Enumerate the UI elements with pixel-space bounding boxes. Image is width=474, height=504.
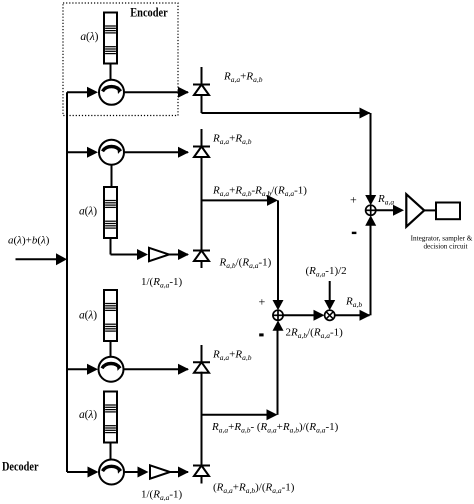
- wire: D4 top stub: [201, 345, 203, 362]
- wire: D4 to D5 with junction node: [201, 372, 203, 466]
- photodiode D2: [193, 147, 210, 158]
- label minus sign S1: [352, 232, 357, 234]
- summer S1: [366, 205, 376, 215]
- wire: S1 to output amplifier A3: [376, 205, 404, 216]
- wire: M1 to summer S1 minus input: [335, 215, 376, 320]
- photodiode D4: [193, 362, 210, 373]
- circulator U3: [99, 357, 124, 382]
- wire: left bus vertical: [66, 92, 68, 472]
- grating a(lambda) G4: [104, 392, 117, 443]
- photodiode D5: [193, 466, 210, 477]
- svg-text:a(λ)+b(λ): a(λ)+b(λ): [8, 235, 50, 247]
- label minus sign S2: [259, 333, 263, 336]
- svg-text:+: +: [350, 193, 357, 207]
- wire: D2 to D3 with junction node: [201, 157, 203, 251]
- wire: bus to circulator U4: [67, 467, 99, 478]
- block: integrator sampler decision circuit box: [436, 203, 460, 220]
- wire: (R_a,a-1)/2 into M1: [324, 281, 335, 310]
- wire: D1 top stub: [201, 67, 203, 85]
- svg-text:decision circuit: decision circuit: [423, 242, 467, 250]
- wire: G3 to U3: [110, 341, 112, 357]
- svg-text:Encoder: Encoder: [130, 6, 168, 20]
- grating a(lambda) G2: [104, 187, 117, 238]
- multiplier M1: [325, 310, 335, 320]
- svg-text:2Ra,b/(Ra,a-1): 2Ra,b/(Ra,a-1): [286, 327, 344, 341]
- wire: S2 to multiplier M1: [283, 310, 324, 321]
- wire: bus to circulator U1: [67, 87, 98, 98]
- circulator U2: [99, 140, 124, 165]
- amplifier A2 1/(R_a,a-1): [150, 465, 170, 478]
- svg-text:a(λ): a(λ): [80, 31, 98, 43]
- wire: A1 to photodiode D3: [169, 249, 189, 260]
- svg-text:a(λ): a(λ): [79, 409, 97, 421]
- label Integrator, sampler & decision circuit: [411, 235, 473, 251]
- wire: junction to summer S2 minus input: [202, 320, 284, 420]
- svg-text:a(λ): a(λ): [79, 310, 97, 322]
- wire: A3 to decision box: [424, 209, 436, 211]
- wire: D3 bottom stub: [201, 261, 203, 268]
- grating a(lambda) G3: [104, 290, 117, 341]
- wire: D2 top stub: [201, 129, 203, 148]
- circulator U4: [99, 460, 124, 485]
- photodiode D3: [193, 251, 210, 262]
- wire: U3 to photodiode D4: [124, 364, 190, 375]
- wire: bus to circulator U3: [67, 364, 98, 375]
- wire: input feed line: [16, 253, 68, 265]
- summer S2: [273, 310, 283, 320]
- wire: G1 to U1: [110, 64, 112, 81]
- wire: U2 to grating G2: [111, 165, 113, 187]
- wire: G4 to U4: [110, 443, 112, 461]
- circulator U1: [99, 80, 124, 105]
- encoder dotted box: [63, 3, 178, 116]
- wire: G2 to amplifier A1: [111, 238, 149, 260]
- svg-text:Decoder: Decoder: [2, 460, 39, 474]
- wire: A2 to photodiode D5: [170, 467, 189, 478]
- wire: U4 to amplifier A2: [124, 467, 149, 478]
- svg-text:a(λ): a(λ): [79, 206, 97, 218]
- photodiode D1: [193, 85, 210, 96]
- svg-text:(Ra,a-1)/2: (Ra,a-1)/2: [306, 265, 347, 279]
- amplifier A3 output: [406, 194, 424, 227]
- wire: D1 to summer S1 plus input: [202, 95, 377, 206]
- amplifier A1 1/(R_a,a-1): [149, 248, 169, 261]
- wire: U2 to photodiode D2: [124, 147, 189, 158]
- wire: bus to circulator U2: [67, 147, 98, 158]
- svg-text:+: +: [259, 295, 266, 309]
- svg-text:Integrator, sampler &: Integrator, sampler &: [411, 235, 473, 243]
- wire: junction to summer S2 plus input: [202, 195, 284, 310]
- wire: U1 to photodiode D1: [124, 87, 189, 98]
- wire: D5 bottom stub: [201, 476, 203, 484]
- grating a(lambda) G1: [104, 13, 117, 64]
